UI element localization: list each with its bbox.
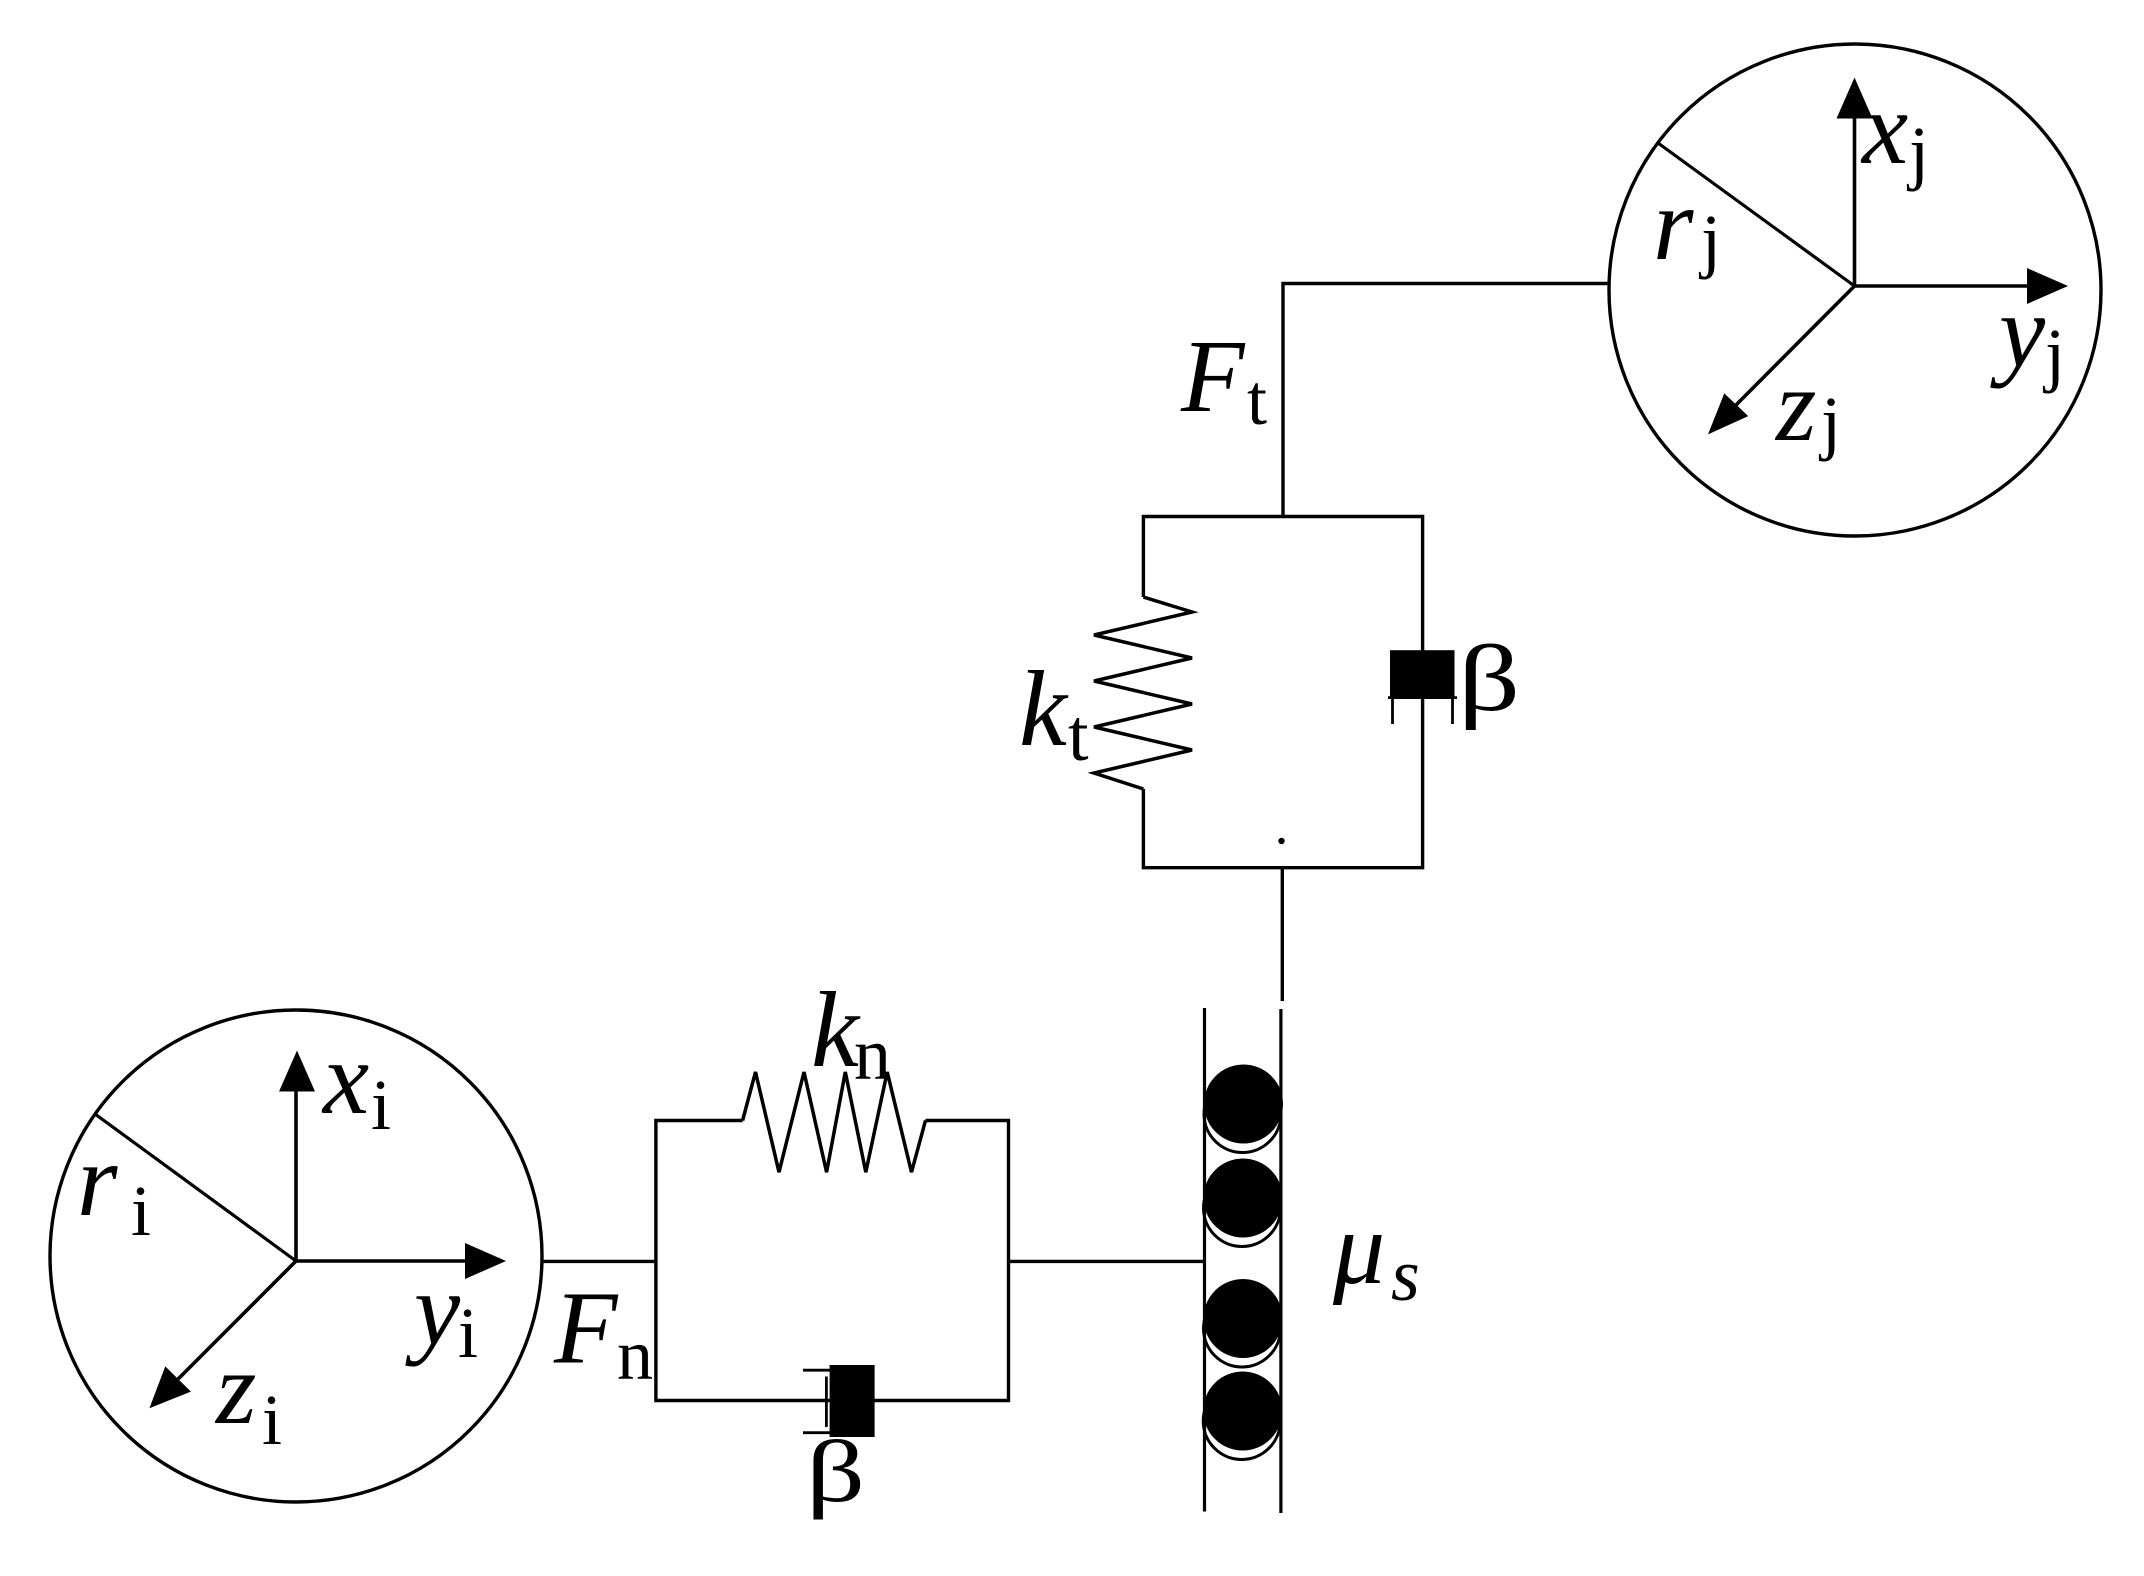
svg-text:j: j: [1698, 200, 1721, 280]
roller 4: [1203, 1372, 1282, 1460]
axis x_i: [279, 1051, 315, 1262]
wire from tangential box down to friction slider: [1281, 868, 1284, 1001]
svg-text:r: r: [77, 1123, 118, 1238]
svg-text:i: i: [458, 1293, 478, 1373]
svg-text:x: x: [1860, 71, 1908, 186]
svg-text:i: i: [131, 1171, 151, 1251]
label y_j: [1990, 274, 2065, 394]
label F_t: [1180, 319, 1267, 440]
axis y_j: [1855, 268, 2069, 304]
label x_j: [1860, 71, 1929, 192]
svg-text:s: s: [1391, 1235, 1420, 1317]
svg-text:x: x: [321, 1021, 369, 1136]
axis x_j: [1837, 78, 1873, 286]
roller 1: [1204, 1065, 1283, 1153]
label k_t: [1019, 650, 1089, 777]
spring k_t: [1094, 597, 1192, 789]
svg-text:n: n: [617, 1315, 653, 1395]
label k_n: [811, 971, 891, 1096]
svg-text:β: β: [1458, 626, 1520, 730]
label z_i: [214, 1331, 282, 1460]
radius r_i: [95, 1114, 296, 1261]
roller 2: [1204, 1159, 1283, 1247]
svg-text:y: y: [1990, 274, 2046, 389]
axis z_j: [1708, 286, 1855, 434]
label r_i: [77, 1123, 151, 1251]
spring k_n: [743, 1072, 926, 1172]
wire F_n: [542, 1260, 656, 1263]
svg-text:i: i: [371, 1065, 391, 1145]
particle j: [1609, 44, 2101, 536]
svg-text:j: j: [1906, 112, 1929, 192]
wire F_t: [1283, 284, 1610, 517]
axis y_i: [296, 1243, 506, 1279]
radius r_j: [1658, 143, 1855, 286]
svg-text:z: z: [214, 1331, 256, 1446]
particle i: [50, 1010, 542, 1502]
svg-text:t: t: [1247, 360, 1267, 440]
friction slider right rail: [1279, 1009, 1282, 1513]
svg-text:n: n: [854, 1014, 891, 1096]
roller 3: [1204, 1279, 1283, 1367]
damper beta (normal): [803, 1365, 875, 1437]
damper beta (tangential): [1388, 650, 1457, 724]
svg-text:j: j: [1818, 382, 1841, 462]
label y_i: [405, 1252, 478, 1373]
axis z_i: [149, 1261, 296, 1408]
svg-text:r: r: [1653, 167, 1694, 282]
contact dot in tangential box: [1278, 838, 1284, 844]
svg-text:β: β: [806, 1423, 865, 1520]
wire from normal box to friction slider: [1009, 1260, 1205, 1263]
label x_i: [321, 1021, 391, 1145]
svg-text:i: i: [262, 1380, 282, 1460]
svg-text:j: j: [2042, 314, 2065, 394]
svg-text:k: k: [1019, 650, 1069, 769]
label mu_s: [1332, 1191, 1420, 1317]
svg-text:μ: μ: [1332, 1191, 1385, 1306]
friction slider left rail: [1203, 1008, 1206, 1512]
svg-text:z: z: [1774, 348, 1816, 463]
label z_j: [1774, 348, 1841, 463]
svg-text:F: F: [1180, 319, 1246, 434]
normal element box: [656, 1121, 1009, 1401]
svg-text:t: t: [1068, 695, 1089, 777]
label F_n: [553, 1271, 653, 1396]
label r_j: [1653, 167, 1721, 282]
svg-text:y: y: [405, 1252, 461, 1367]
tangential element box: [1143, 517, 1422, 868]
svg-text:F: F: [553, 1271, 619, 1386]
